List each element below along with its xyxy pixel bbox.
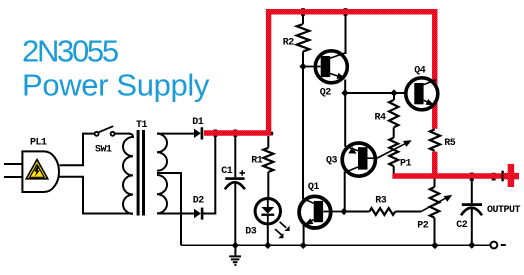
potentiometer P1 [389,138,398,166]
transistor Q1 [299,196,344,228]
wire R2 junction down to Q1 collector [302,67,304,200]
svg-text:P1: P1 [400,158,412,169]
svg-text:P2: P2 [417,221,429,232]
svg-text:D1: D1 [192,117,204,128]
LED D3 light arrows [275,222,290,238]
svg-text:R2: R2 [283,38,295,49]
warning triangle [26,160,48,179]
diode D1 [194,129,201,138]
wire emitter row to Q4 base [345,92,414,94]
svg-text:C1: C1 [221,166,233,177]
transistor Q2 [303,51,347,83]
wire secondary top to D1 [157,133,194,135]
svg-text:R3: R3 [375,196,387,207]
wire Q3 collector down to R3 row [344,172,346,212]
capacitor C2 [471,178,473,203]
svg-text:D3: D3 [245,227,257,238]
red plus terminal [508,164,515,187]
junction dots behind red [214,8,503,181]
resistor R1 [267,136,269,197]
transistor Q4 [406,78,438,110]
wire D2 cathode riser to D1 node [203,133,216,214]
wire secondary bottom to D2 [157,213,194,215]
red wire: D1 node, top rail, down through Q4 [204,12,435,176]
resistor R5 [429,129,442,152]
ground [229,245,241,265]
transformer T1 secondary bottom winding [157,175,167,213]
wire plug top to switch [60,134,95,166]
red wire: output positive row [392,173,501,178]
svg-text:OUTPUT: OUTPUT [487,205,521,216]
svg-text:Q4: Q4 [414,65,426,76]
svg-text:R5: R5 [444,138,456,149]
wire Q2 collector to top rail [345,13,347,54]
svg-text:SW1: SW1 [95,145,112,156]
wire Q2 emitter down to Q3 [344,80,346,147]
wire switch to primary [115,133,130,135]
plug PL1 [4,151,59,192]
resistor R2 [302,14,304,24]
svg-text:T1: T1 [136,120,148,131]
negative output terminal [491,242,498,249]
svg-text:2N3055: 2N3055 [22,33,118,68]
svg-text:PL1: PL1 [30,138,47,149]
wire plug bottom to transformer primary bottom [60,177,134,214]
wire Q1 emitter to rail [303,225,305,245]
svg-text:Power Supply: Power Supply [22,68,210,103]
svg-text:Q3: Q3 [326,155,338,166]
switch SW1 [95,126,115,136]
capacitor C1 [234,135,236,177]
bottom rail wire [181,244,491,246]
svg-text:Q1: Q1 [308,182,320,193]
transformer T1 core [137,130,140,216]
transistor Q3 [342,143,377,176]
resistor R4 [393,93,395,100]
svg-text:D2: D2 [193,196,205,207]
diode D2 [194,209,201,218]
transformer T1 primary winding [123,134,133,214]
svg-text:C2: C2 [456,220,468,231]
plus sign for C1 [240,170,246,175]
svg-text:R4: R4 [375,113,387,124]
potentiometer P2 [434,179,436,188]
transformer T1 secondary top winding [157,134,167,171]
resistor R3 [344,211,370,213]
LED D3 [255,199,280,224]
svg-text:Q2: Q2 [320,88,332,99]
svg-text:R1: R1 [251,156,263,167]
wire center tap to ground rail [157,173,181,245]
